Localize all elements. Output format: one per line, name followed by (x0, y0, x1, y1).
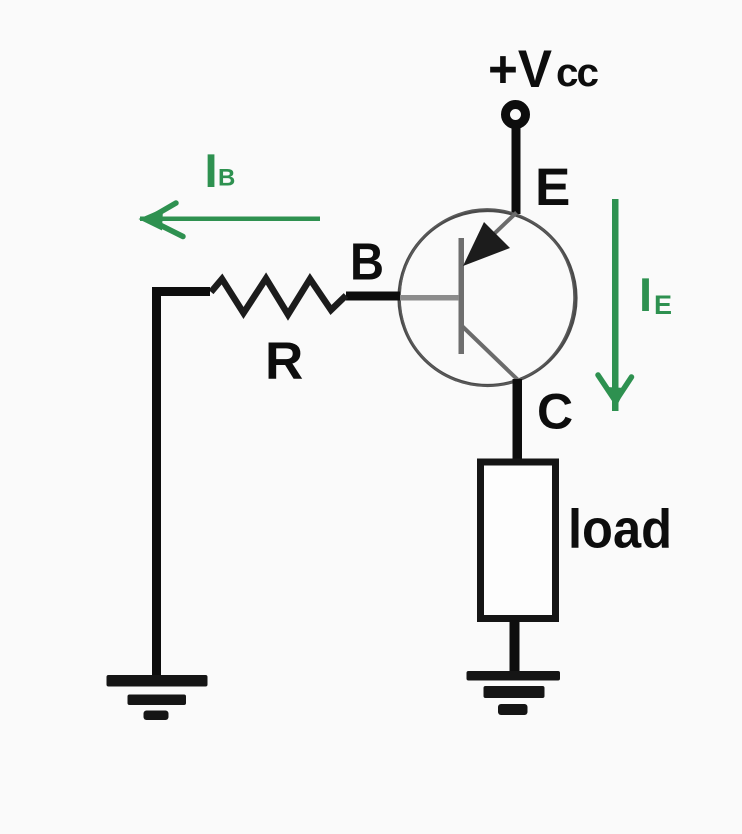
svg-text:R: R (265, 332, 303, 391)
svg-text:E: E (535, 158, 570, 217)
wire base left (to left rail) (152, 287, 210, 296)
svg-text:B: B (218, 165, 235, 192)
transistor base bar (459, 238, 465, 354)
label IE (639, 268, 672, 321)
transistor emitter diagonal (473, 213, 517, 255)
ground (right) (467, 671, 561, 715)
label +Vcc (488, 40, 599, 99)
svg-text:B: B (350, 234, 384, 292)
wire emitter (Vcc to transistor) (512, 123, 521, 214)
svg-text:I: I (639, 268, 652, 321)
svg-text:load: load (568, 498, 672, 560)
transistor Q1 circle (399, 211, 576, 386)
svg-text:E: E (654, 290, 672, 320)
ground (left) (107, 675, 208, 720)
wire load to ground (510, 620, 520, 672)
Vcc terminal (506, 105, 526, 125)
svg-text:C: C (537, 384, 573, 440)
current arrow IB (139, 203, 321, 237)
svg-text:I: I (205, 144, 218, 197)
resistor R zigzag (211, 279, 346, 315)
label IB (205, 144, 236, 197)
wire left rail vertical (152, 287, 161, 676)
svg-text:cc: cc (556, 51, 599, 95)
transistor emitter arrowhead (463, 222, 510, 266)
load resistor rectangle (481, 462, 556, 619)
wire base right (resistor to transistor) (346, 292, 400, 301)
transistor collector diagonal (463, 327, 519, 381)
current arrow IE (598, 199, 632, 411)
svg-text:+V: +V (488, 40, 552, 99)
wire collector (transistor to load) (513, 379, 523, 460)
transistor base lead (gray) (399, 295, 459, 301)
